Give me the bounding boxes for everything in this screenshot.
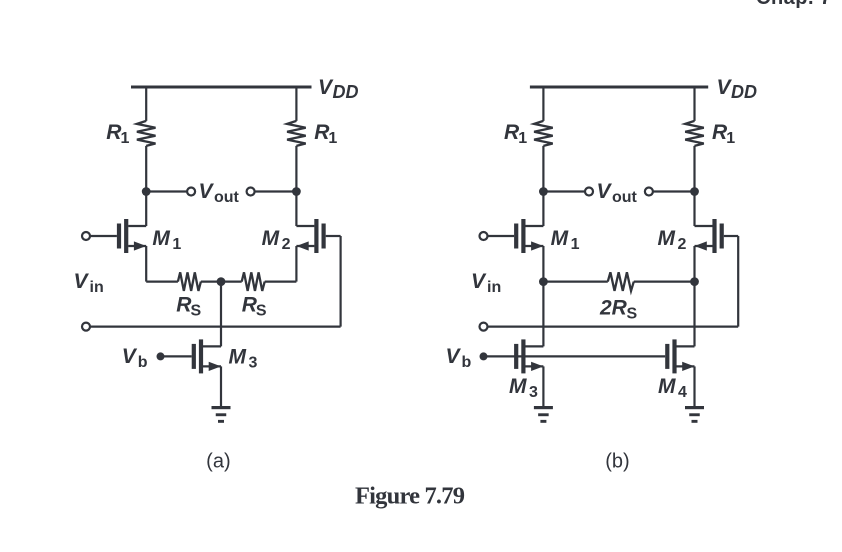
- svg-text:V: V: [471, 270, 487, 293]
- svg-text:4: 4: [678, 384, 687, 401]
- svg-text:1: 1: [518, 130, 527, 147]
- svg-text:DD: DD: [731, 82, 757, 102]
- svg-text:b: b: [462, 354, 472, 371]
- svg-text:M: M: [551, 227, 569, 250]
- svg-text:M: M: [658, 227, 676, 250]
- svg-text:V: V: [199, 180, 215, 203]
- svg-text:1: 1: [726, 130, 735, 147]
- svg-text:(a): (a): [206, 451, 230, 473]
- svg-text:M: M: [229, 346, 247, 369]
- svg-text:2: 2: [678, 236, 687, 253]
- svg-text:in: in: [90, 279, 104, 296]
- svg-text:M: M: [262, 227, 280, 250]
- svg-text:V: V: [446, 345, 462, 368]
- svg-text:1: 1: [328, 130, 337, 147]
- svg-text:V: V: [597, 180, 613, 203]
- svg-text:3: 3: [529, 384, 538, 401]
- svg-text:S: S: [191, 303, 202, 320]
- svg-text:M: M: [658, 375, 676, 398]
- svg-text:Figure 7.79: Figure 7.79: [355, 483, 465, 510]
- svg-text:DD: DD: [333, 82, 359, 102]
- svg-text:1: 1: [172, 236, 181, 253]
- svg-text:1: 1: [571, 236, 580, 253]
- svg-text:out: out: [612, 189, 638, 206]
- svg-text:M: M: [509, 375, 527, 398]
- svg-text:in: in: [487, 279, 501, 296]
- svg-text:1: 1: [121, 130, 130, 147]
- svg-text:(b): (b): [605, 451, 629, 473]
- svg-text:2R: 2R: [599, 297, 628, 320]
- svg-text:out: out: [214, 189, 240, 206]
- svg-text:Chap. 7: Chap. 7: [756, 0, 832, 9]
- svg-text:V: V: [74, 270, 90, 293]
- svg-text:b: b: [138, 354, 148, 371]
- svg-text:3: 3: [249, 355, 258, 372]
- svg-text:M: M: [152, 227, 170, 250]
- svg-text:2: 2: [282, 236, 291, 253]
- svg-text:S: S: [256, 303, 267, 320]
- svg-text:S: S: [627, 306, 638, 323]
- svg-text:V: V: [122, 345, 138, 368]
